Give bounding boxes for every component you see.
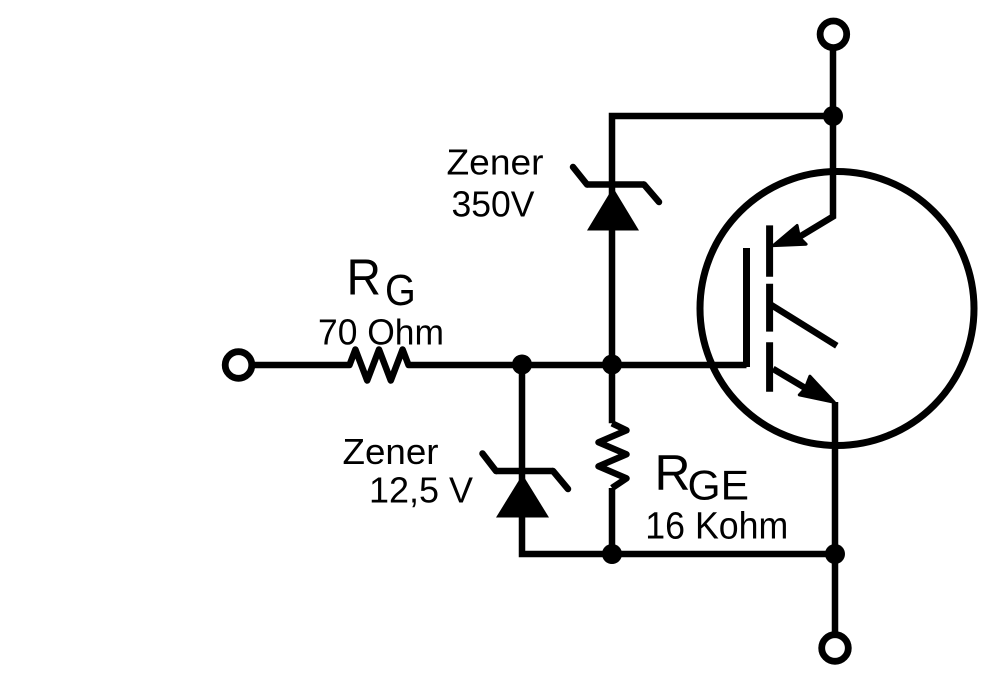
svg-text:12,5 V: 12,5 V xyxy=(369,470,473,511)
Q1 gate bar xyxy=(743,248,750,367)
resistor R2 R_GE branch with zigzag xyxy=(612,116,833,423)
node N4 junction dot (833,554) xyxy=(825,544,845,564)
wire emitter vertical xyxy=(832,402,839,554)
svg-text:70 Ohm: 70 Ohm xyxy=(318,311,444,352)
terminal T1 (gate input, left) xyxy=(225,352,252,379)
Q1 emitter diagonal with arrow xyxy=(773,369,834,403)
wire gate input with resistor R1 body xyxy=(252,350,747,381)
svg-text:16 Kohm: 16 Kohm xyxy=(645,506,788,548)
svg-text:R: R xyxy=(347,249,382,306)
zener D2 12,5V symbol xyxy=(483,454,569,518)
Q1 body diagonal xyxy=(771,305,837,346)
transistor Q1 IGBT circle xyxy=(700,172,974,446)
terminal T2 (collector, top) xyxy=(820,21,847,48)
svg-text:Zener: Zener xyxy=(447,141,544,182)
node N5 junction dot (832.5,116) xyxy=(823,106,843,126)
Q1 collector lead and arrow xyxy=(773,116,833,246)
Q1 channel dashes xyxy=(766,225,773,391)
wire emitter bottom xyxy=(832,554,839,636)
terminal T3 (emitter, bottom) xyxy=(822,635,849,662)
svg-text:R: R xyxy=(655,445,691,501)
node N2 junction dot (612,365) xyxy=(602,355,622,375)
svg-text:G: G xyxy=(385,266,416,315)
wire collector top xyxy=(830,47,837,116)
zener D1 350V symbol xyxy=(573,167,659,231)
svg-text:GE: GE xyxy=(688,461,750,508)
svg-text:350V: 350V xyxy=(452,184,535,225)
node N3 junction dot (612,554) xyxy=(602,544,622,564)
svg-text:Zener: Zener xyxy=(343,431,439,472)
wire left branch vertical (zener 12.5V branch) xyxy=(522,365,835,554)
node N1 junction dot (522,365) xyxy=(512,355,532,375)
